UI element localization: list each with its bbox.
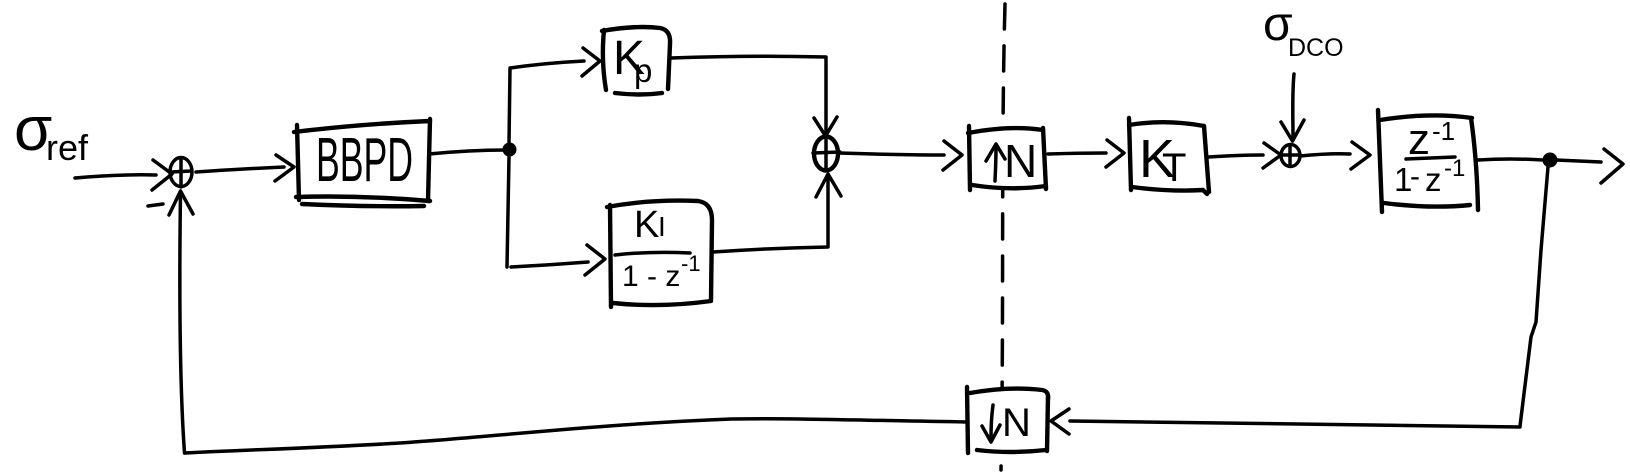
block KI over 1 minus z inverse: [607, 201, 712, 307]
block KT: [1129, 118, 1209, 194]
svg-text:-1: -1: [1432, 116, 1455, 146]
svg-text:-1: -1: [1444, 155, 1465, 182]
output node dot: [1543, 153, 1558, 168]
wire S2 to upsampler: [839, 141, 962, 170]
svg-text:BBPD: BBPD: [316, 126, 413, 195]
block up-N upsampler: [968, 126, 1046, 190]
wire input to summer S1: [75, 160, 172, 190]
wire branch up to Kp: [509, 48, 600, 144]
svg-text:p: p: [634, 52, 652, 89]
svg-text:DCO: DCO: [1288, 34, 1344, 62]
wire right feedback down: [1520, 167, 1548, 426]
node sigma_DCO label: [1263, 0, 1344, 62]
wire Kp to down-arrow into S2: [671, 56, 837, 136]
wire bottom feedback right segment into down-N: [1051, 409, 1520, 434]
wire S1 to BBPD: [196, 155, 294, 181]
wire upsampler to KT: [1048, 140, 1124, 167]
wire branch down to KI: [507, 157, 605, 275]
summing junction S3: [1281, 145, 1300, 167]
wire accumulator to output node and out: [1478, 149, 1623, 183]
dashed domain-boundary line: [1001, 4, 1005, 470]
summing junction S1: [170, 158, 192, 188]
wire feedback up-arrow into S1: [169, 191, 193, 453]
svg-text:-: -: [1410, 160, 1420, 193]
block Kp: [602, 27, 670, 95]
wire sigma_DCO down-arrow into S3: [1281, 74, 1304, 141]
node sigma_ref label: [14, 95, 89, 168]
block down-N decimator: [967, 387, 1048, 453]
svg-text:K: K: [634, 204, 659, 246]
wire bottom feedback left segment: [185, 419, 966, 453]
svg-text:-1: -1: [681, 251, 701, 276]
block BBPD: [294, 119, 430, 206]
minus sign at S1: [148, 204, 163, 206]
svg-text:N: N: [1004, 135, 1037, 187]
branch node dot: [503, 143, 517, 157]
svg-text:z: z: [1425, 161, 1442, 198]
svg-text:I: I: [658, 211, 666, 242]
wire KT to summer S3: [1209, 143, 1281, 168]
svg-text:N: N: [1002, 401, 1031, 445]
wire S3 to accumulator block: [1300, 142, 1370, 169]
svg-text:T: T: [1162, 146, 1186, 190]
wire KI to up-arrow into S2: [713, 174, 841, 252]
wire BBPD to branch node: [429, 150, 506, 154]
svg-text:ref: ref: [46, 127, 89, 168]
block z inverse over 1 minus z inverse: [1378, 110, 1478, 212]
summing junction S2: [813, 137, 840, 171]
svg-text:1 - z: 1 - z: [622, 260, 680, 293]
